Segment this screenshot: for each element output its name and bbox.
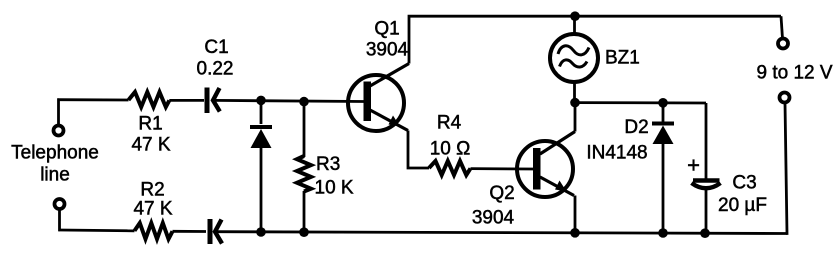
svg-text:3904: 3904 [472, 208, 515, 229]
svg-text:D2: D2 [624, 117, 648, 138]
wire Q2 collector up [574, 103, 577, 132]
node dot bottom at D1 [256, 227, 266, 237]
wire top rail right corner [781, 16, 783, 38]
wire C3 lower [705, 189, 708, 234]
resistor R4 [429, 161, 471, 175]
wire D2 lower [662, 143, 665, 233]
wire Q1 collector to top rail [409, 16, 781, 63]
svg-text:47 K: 47 K [131, 135, 170, 156]
resistor R1 [129, 92, 170, 107]
terminal T1 (telephone line top) [54, 126, 64, 136]
svg-text:10 K: 10 K [315, 178, 354, 199]
svg-text:3904: 3904 [366, 40, 409, 61]
svg-text:R2: R2 [140, 180, 164, 201]
label C1 0.22 [197, 37, 234, 80]
wire bottom rail right of C2 [216, 232, 788, 234]
terminal T2 stub [55, 199, 65, 209]
resistor R2 [135, 223, 173, 239]
node dot top rail buzzer [570, 11, 580, 21]
label Q2 3904 [472, 183, 515, 229]
node dot bottom at Q2 emitter [570, 228, 580, 238]
node dot bottom at R3 [299, 227, 309, 237]
node dot mid wire at D2 [658, 98, 668, 108]
svg-text:47 K: 47 K [133, 199, 172, 220]
transistor Q1 [348, 64, 409, 132]
label Telephone line [11, 143, 99, 186]
label R2 47 K [133, 180, 172, 220]
svg-text:10 Ω: 10 Ω [430, 139, 471, 160]
node dot mid wire left [570, 98, 580, 108]
wire D1 branch lower [260, 147, 263, 233]
svg-text:R3: R3 [316, 154, 340, 175]
wire C3 upper [705, 103, 708, 179]
wire Q1 emitter down [408, 131, 429, 169]
wire buzzer bottom stub [573, 82, 576, 103]
svg-text:IN4148: IN4148 [586, 143, 647, 164]
label D2 IN4148 [586, 117, 648, 164]
label R4 10 ohm [430, 113, 471, 160]
svg-text:Telephone: Telephone [11, 143, 99, 164]
wire C1 to Q1 base [214, 100, 364, 101]
svg-text:C3: C3 [732, 173, 756, 194]
label C3 20 uF [718, 173, 767, 217]
capacitor C1 [207, 88, 220, 114]
svg-text:Q1: Q1 [374, 19, 399, 40]
svg-text:line: line [40, 165, 70, 186]
wire top line left [59, 98, 129, 101]
svg-text:+: + [687, 153, 700, 178]
wire D1 branch upper [260, 100, 263, 124]
diode D2 [652, 124, 674, 145]
wire R3 branch lower [303, 191, 306, 233]
svg-text:20 µF: 20 µF [718, 195, 767, 216]
svg-text:C1: C1 [204, 37, 228, 58]
wire bottom rail left [60, 229, 135, 233]
capacitor C3 [692, 181, 721, 189]
svg-text:R4: R4 [437, 113, 462, 134]
svg-text:0.22: 0.22 [197, 59, 234, 80]
diode D1 [250, 127, 272, 148]
node dot bottom at D2 [658, 228, 668, 238]
transistor Q2 [517, 132, 575, 198]
svg-text:BZ1: BZ1 [605, 48, 640, 69]
wire R1 to C1 [169, 99, 204, 102]
node dot top at R3 [299, 97, 309, 107]
wire D2 upper [662, 103, 665, 122]
terminal T3 (supply top) [778, 39, 788, 49]
svg-text:R1: R1 [138, 114, 162, 135]
capacitor C2 [210, 219, 222, 244]
resistor R3 [297, 156, 311, 192]
label Q1 3904 [366, 19, 409, 61]
svg-text:Q2: Q2 [489, 183, 514, 204]
wire bottom terminal stub [58, 211, 61, 231]
svg-text:9 to 12 V: 9 to 12 V [756, 63, 832, 84]
wire right vertical [785, 103, 787, 234]
node dot bottom at C3 [700, 228, 710, 238]
wire top terminal stub [57, 100, 60, 124]
wire buzzer top stub [573, 16, 576, 34]
buzzer BZ1 [550, 34, 598, 82]
terminal T4 (supply bottom) [780, 93, 790, 103]
wire R4 to Q2 base [471, 167, 534, 170]
wire R2 to C2 [173, 230, 207, 233]
node dot top at D1 [256, 96, 266, 106]
wire Q2 emitter down [574, 196, 577, 233]
wire R3 branch upper [303, 102, 306, 157]
label R1 47 K [131, 114, 170, 156]
label R3 10 K [315, 154, 354, 199]
wire mid horizontal [575, 101, 706, 104]
